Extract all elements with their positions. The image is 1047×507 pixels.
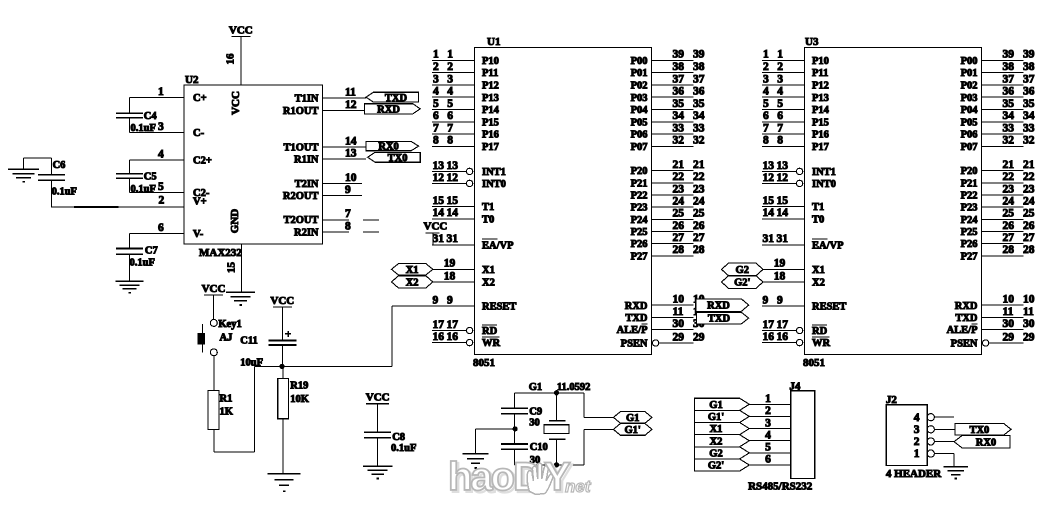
svg-text:28: 28: [1023, 244, 1035, 256]
wire R19 to ground: [282, 419, 284, 474]
svg-text:3: 3: [158, 121, 164, 133]
U1 pin 13 INT1: [432, 160, 506, 178]
VCC symbol at Key1: [202, 283, 226, 319]
net flag G2' (hex) left of U3: [722, 276, 764, 289]
svg-text:2: 2: [447, 61, 453, 73]
svg-text:AJ: AJ: [220, 333, 233, 344]
svg-text:34: 34: [673, 110, 685, 122]
svg-text:4: 4: [765, 429, 771, 441]
U1 pin 9 RESET: [432, 294, 516, 312]
svg-text:T1IN: T1IN: [295, 93, 319, 104]
capacitor C10 30: [501, 429, 548, 466]
IC U2 MAX232 body: [184, 74, 323, 259]
svg-text:8: 8: [433, 135, 439, 147]
svg-text:TXD: TXD: [708, 314, 731, 325]
svg-text:VCC: VCC: [230, 91, 242, 115]
U1 pin 23 P22: [631, 183, 705, 201]
svg-text:G1: G1: [529, 382, 542, 393]
svg-text:7: 7: [763, 123, 769, 135]
U3 pin 36 P03: [961, 86, 1035, 104]
svg-text:11: 11: [1023, 306, 1034, 318]
svg-text:P07: P07: [631, 142, 648, 153]
svg-text:17: 17: [433, 319, 445, 331]
svg-text:G1': G1': [625, 425, 641, 436]
svg-text:8: 8: [763, 135, 769, 147]
J2 pin 4: [914, 412, 935, 424]
svg-text:8: 8: [345, 221, 351, 233]
svg-text:P04: P04: [961, 105, 979, 116]
svg-text:P17: P17: [812, 142, 829, 153]
svg-text:VCC: VCC: [202, 283, 226, 295]
junction C9/C10/ground: [476, 426, 518, 454]
svg-text:37: 37: [693, 73, 705, 85]
svg-text:8: 8: [447, 135, 453, 147]
U1 pin 28 P27: [631, 244, 705, 262]
svg-text:22: 22: [693, 171, 705, 183]
svg-text:U2: U2: [185, 74, 199, 86]
svg-text:9: 9: [447, 294, 453, 306]
svg-text:4: 4: [763, 86, 769, 98]
svg-text:27: 27: [693, 232, 705, 244]
net flag TXD right of U1 pin 11: [697, 312, 749, 324]
U3 pin 11 TXD: [955, 306, 1034, 324]
RESET net wire and junction: [254, 306, 474, 369]
wire C6 to ground: [24, 158, 52, 169]
svg-text:17: 17: [447, 319, 459, 331]
capacitor C8 0.1uF: [364, 432, 416, 466]
svg-text:X2: X2: [812, 278, 825, 289]
connector J2 4 HEADER body: [886, 394, 942, 480]
svg-text:P02: P02: [631, 81, 648, 92]
U3 pin 16 WR: [762, 331, 831, 349]
svg-text:P15: P15: [812, 117, 829, 128]
svg-text:C5: C5: [144, 171, 157, 182]
svg-text:P14: P14: [812, 105, 830, 116]
U1 pin 10 RXD: [625, 294, 705, 312]
svg-text:35: 35: [1023, 98, 1035, 110]
svg-text:J4: J4: [789, 381, 801, 393]
svg-text:P22: P22: [961, 191, 978, 202]
wire to G1' flag: [584, 429, 613, 465]
J2 pin 2: [914, 436, 935, 448]
svg-text:P12: P12: [812, 81, 829, 92]
svg-text:P03: P03: [961, 93, 978, 104]
svg-text:R1OUT: R1OUT: [283, 106, 319, 117]
svg-text:PSEN: PSEN: [951, 339, 978, 350]
svg-text:11: 11: [673, 306, 684, 318]
U2 pin 9 R2OUT wire: [283, 184, 362, 202]
svg-text:25: 25: [693, 208, 705, 220]
svg-text:P03: P03: [631, 93, 648, 104]
svg-text:0.1uF: 0.1uF: [130, 258, 155, 269]
svg-text:38: 38: [1003, 61, 1015, 73]
U2 pin 6 V- wire: [130, 222, 204, 240]
svg-text:34: 34: [1003, 110, 1015, 122]
svg-text:36: 36: [693, 86, 705, 98]
svg-text:RXD: RXD: [707, 301, 730, 312]
U3 pin 22 P21: [961, 171, 1035, 189]
svg-text:R1: R1: [220, 394, 233, 405]
capacitor C11 10uF (polarized): [240, 331, 296, 369]
svg-text:33: 33: [1003, 123, 1015, 135]
svg-text:T1: T1: [812, 202, 824, 213]
svg-text:5: 5: [447, 98, 453, 110]
svg-text:6: 6: [765, 454, 771, 466]
svg-text:32: 32: [1003, 135, 1015, 147]
U2 pin 8 R2IN wire: [294, 221, 379, 239]
svg-text:21: 21: [693, 159, 705, 171]
svg-text:C7: C7: [145, 246, 158, 257]
U1 pin 3 P12: [432, 73, 499, 91]
svg-text:EA/VP: EA/VP: [482, 240, 514, 251]
VCC symbol at C11: [270, 295, 294, 341]
U2 pin 14 T1OUT wire: [283, 135, 366, 153]
U1 pin 37 P02: [631, 73, 705, 91]
svg-text:11: 11: [1003, 306, 1014, 318]
svg-text:15: 15: [777, 195, 789, 207]
svg-text:0.1uF: 0.1uF: [52, 187, 77, 198]
svg-text:3: 3: [763, 73, 769, 85]
svg-text:P25: P25: [631, 227, 648, 238]
svg-text:37: 37: [673, 73, 685, 85]
U1 pin 30 ALE/P: [617, 318, 705, 336]
svg-text:7: 7: [777, 123, 783, 135]
svg-text:X2: X2: [406, 278, 419, 289]
net flag TX0 at J2: [955, 424, 1011, 436]
J4 net flag G2' / pin 6: [695, 454, 791, 472]
svg-text:RXD: RXD: [955, 301, 978, 312]
J2 pin 4 stub wire: [934, 416, 954, 418]
ground at R19: [267, 474, 300, 491]
U3 pin 32 P07: [961, 135, 1035, 153]
svg-text:1: 1: [158, 86, 164, 98]
U3 pin 19 X1: [763, 258, 825, 276]
svg-text:C4: C4: [144, 111, 158, 122]
svg-text:9: 9: [345, 184, 351, 196]
J4 net flag G1 / pin 1: [695, 393, 791, 411]
U3 pin 26 P25: [961, 220, 1035, 238]
svg-text:INT0: INT0: [482, 179, 506, 190]
svg-text:P16: P16: [812, 130, 829, 141]
svg-text:23: 23: [673, 183, 685, 195]
svg-text:P24: P24: [631, 215, 649, 226]
VCC symbol at U1 EA/VP: [424, 221, 448, 245]
svg-text:19: 19: [774, 258, 786, 270]
svg-text:P20: P20: [961, 166, 978, 177]
svg-text:17: 17: [763, 319, 775, 331]
U2 pin 13 R1IN wire: [294, 148, 366, 166]
U3 pin 35 P04: [961, 98, 1035, 116]
svg-text:WR: WR: [812, 338, 831, 349]
svg-text:22: 22: [1003, 171, 1015, 183]
U3 pin 30 ALE/P: [947, 318, 1035, 336]
svg-text:G1': G1': [708, 412, 724, 423]
U1 pin 32 P07: [631, 135, 705, 153]
svg-text:P27: P27: [961, 251, 978, 262]
svg-text:18: 18: [774, 270, 786, 282]
svg-text:INT0: INT0: [812, 179, 836, 190]
wire net V+ from C6 to U2 pin 2: [51, 206, 184, 208]
U1 pin 19 X1: [433, 258, 495, 276]
U3 pin 7 P16: [762, 123, 829, 141]
svg-text:RX0: RX0: [976, 437, 996, 448]
svg-text:12: 12: [433, 172, 445, 184]
svg-text:4: 4: [433, 86, 439, 98]
U3 pin 39 P00: [961, 49, 1035, 67]
svg-text:2: 2: [914, 436, 920, 448]
svg-text:9: 9: [433, 294, 439, 306]
U3 pin 17 RD: [762, 319, 828, 337]
U1 pin 1 P10: [432, 49, 499, 67]
U3 pin 18 X2: [763, 270, 825, 288]
svg-text:7: 7: [433, 123, 439, 135]
U1 pin 24 P23: [631, 196, 705, 214]
U3 pin 27 P26: [961, 232, 1035, 250]
crystal Y1 11.0592: [544, 393, 569, 465]
svg-text:0.1uF: 0.1uF: [131, 123, 156, 134]
net flag G1' (hex): [613, 424, 652, 436]
U3 pin 5 P14: [762, 98, 830, 116]
svg-text:18: 18: [444, 270, 456, 282]
svg-text:1: 1: [777, 49, 783, 61]
U3 pin 15 T1: [762, 195, 824, 213]
U3 pin 33 P06: [961, 123, 1035, 141]
resistor R1 1K: [208, 391, 234, 430]
svg-text:RXD: RXD: [377, 104, 400, 115]
svg-text:5: 5: [763, 98, 769, 110]
svg-text:13: 13: [345, 148, 357, 160]
svg-text:2: 2: [433, 61, 439, 73]
capacitor C9 30: [501, 393, 542, 429]
svg-text:33: 33: [673, 123, 685, 135]
svg-text:ALE/P: ALE/P: [947, 325, 979, 336]
svg-text:P15: P15: [482, 117, 499, 128]
svg-text:23: 23: [1003, 183, 1015, 195]
svg-text:P23: P23: [631, 203, 648, 214]
svg-text:1K: 1K: [220, 407, 234, 418]
svg-text:4: 4: [914, 412, 920, 424]
svg-text:2: 2: [159, 194, 165, 206]
svg-text:P10: P10: [482, 56, 499, 67]
ground pin 15 of U2: [226, 244, 256, 305]
svg-text:14: 14: [433, 207, 445, 219]
U3 pin 28 P27: [961, 244, 1035, 262]
svg-text:8051: 8051: [803, 357, 825, 369]
svg-text:R2IN: R2IN: [294, 228, 319, 239]
svg-text:P05: P05: [961, 117, 978, 128]
svg-text:13: 13: [447, 160, 459, 172]
svg-text:38: 38: [1023, 61, 1035, 73]
svg-text:VCC: VCC: [229, 25, 253, 37]
ground at crystal: [463, 454, 489, 468]
pushbutton Key1 AJ: [198, 319, 242, 356]
U2 pin 2 V+ wire: [159, 194, 207, 207]
svg-text:5: 5: [433, 98, 439, 110]
svg-text:INT1: INT1: [482, 167, 506, 178]
svg-text:24: 24: [673, 196, 685, 208]
svg-text:P06: P06: [631, 130, 648, 141]
U3 pin 37 P02: [961, 73, 1035, 91]
U1 pin 22 P21: [631, 171, 705, 189]
svg-text:5: 5: [765, 442, 771, 454]
svg-text:P26: P26: [631, 239, 648, 250]
U1 pin 17 RD: [432, 319, 498, 337]
svg-text:VCC: VCC: [270, 295, 294, 307]
svg-text:33: 33: [693, 123, 705, 135]
svg-text:9: 9: [763, 294, 769, 306]
U3 pin 24 P23: [961, 196, 1035, 214]
svg-text:8: 8: [777, 135, 783, 147]
wire R1 bottom loop to RESET node: [214, 366, 255, 452]
svg-text:16: 16: [777, 331, 789, 343]
svg-text:24: 24: [1003, 196, 1015, 208]
svg-text:RESET: RESET: [812, 302, 846, 313]
wire to G1 flag: [584, 393, 613, 418]
svg-text:0.1uF: 0.1uF: [131, 184, 156, 195]
svg-text:14: 14: [447, 207, 459, 219]
U2 pin 7 T2OUT wire: [283, 208, 379, 226]
svg-text:VCC: VCC: [366, 392, 390, 404]
capacitor C4 0.1uF: [116, 98, 157, 135]
J4 net flag X1 / pin 3: [695, 417, 791, 435]
U3 pin 31 EA/VP: [762, 233, 844, 251]
J4 net flag X2 / pin 4: [695, 429, 791, 447]
U3 pin 4 P13: [762, 86, 829, 104]
U1 pin 4 P13: [432, 86, 499, 104]
svg-text:X1: X1: [812, 265, 825, 276]
svg-text:G2: G2: [736, 265, 749, 276]
U3 pin 23 P22: [961, 183, 1035, 201]
svg-text:RXD: RXD: [625, 301, 648, 312]
U3 pin 14 T0: [762, 207, 824, 225]
IC U3 8051 body: [803, 36, 982, 369]
svg-text:13: 13: [433, 160, 445, 172]
svg-text:T0: T0: [812, 214, 824, 225]
U3 pin 25 P24: [961, 208, 1035, 226]
net flag G2 (hex) left of U3: [722, 263, 764, 276]
J2 pin 1 wire to ground: [934, 454, 954, 467]
svg-text:T2IN: T2IN: [295, 179, 319, 190]
svg-text:13: 13: [763, 160, 775, 172]
svg-text:G2': G2': [734, 278, 750, 289]
svg-text:RS485/RS232: RS485/RS232: [748, 480, 813, 492]
svg-text:19: 19: [444, 258, 456, 270]
svg-text:P12: P12: [482, 81, 499, 92]
svg-text:30: 30: [1023, 318, 1035, 330]
U1 pin 33 P06: [631, 123, 705, 141]
svg-text:P06: P06: [961, 130, 978, 141]
J2 pin 2 wire to RX0: [934, 440, 954, 442]
svg-text:5: 5: [158, 181, 164, 193]
svg-text:26: 26: [1003, 220, 1015, 232]
svg-text:J2: J2: [886, 394, 898, 406]
svg-text:TXD: TXD: [625, 313, 648, 324]
svg-text:P01: P01: [961, 68, 978, 79]
svg-text:P13: P13: [812, 93, 829, 104]
capacitor C7 0.1uF: [116, 234, 158, 282]
svg-text:23: 23: [693, 183, 705, 195]
net flag RX0 at U2 T1OUT: [366, 142, 419, 153]
capacitor C5 0.1uF: [116, 160, 157, 195]
svg-text:35: 35: [673, 98, 685, 110]
U1 pin 39 P00: [631, 49, 705, 67]
net flag X2 (hex) left of U1: [392, 276, 433, 289]
U1 pin 31 EA/VP: [432, 233, 514, 251]
svg-text:TXD: TXD: [955, 313, 978, 324]
svg-text:37: 37: [1023, 73, 1035, 85]
svg-text:4: 4: [447, 86, 453, 98]
svg-text:U3: U3: [805, 36, 819, 48]
svg-text:17: 17: [777, 319, 789, 331]
svg-text:P13: P13: [482, 93, 499, 104]
svg-text:TXD: TXD: [385, 93, 408, 104]
svg-text:P21: P21: [631, 178, 648, 189]
svg-text:10K: 10K: [290, 394, 310, 405]
U2 pin 12 R1OUT wire: [283, 99, 366, 117]
svg-text:30: 30: [1003, 318, 1015, 330]
svg-text:39: 39: [1003, 49, 1015, 61]
svg-text:MAX232: MAX232: [199, 247, 242, 259]
ground at J2: [943, 467, 968, 479]
U1 pin 15 T1: [432, 195, 494, 213]
U3 pin 29 PSEN: [951, 331, 1035, 349]
svg-text:9: 9: [777, 294, 783, 306]
svg-text:RD: RD: [812, 326, 828, 337]
svg-text:36: 36: [673, 86, 685, 98]
U1 pin 21 P20: [631, 159, 705, 177]
U3 pin 10 RXD: [955, 294, 1035, 312]
svg-text:23: 23: [1023, 183, 1035, 195]
svg-text:16: 16: [447, 331, 459, 343]
svg-text:6: 6: [433, 110, 439, 122]
U3 pin 8 P17: [762, 135, 829, 153]
svg-text:3: 3: [447, 73, 453, 85]
svg-text:P20: P20: [631, 166, 648, 177]
svg-text:P01: P01: [631, 68, 648, 79]
svg-text:25: 25: [1003, 208, 1015, 220]
net flag X1 (hex) left of U1: [392, 264, 433, 276]
svg-text:16: 16: [763, 331, 775, 343]
svg-text:X2: X2: [482, 278, 495, 289]
svg-text:6: 6: [763, 110, 769, 122]
wire Key1 to R1: [213, 356, 215, 391]
svg-text:6: 6: [158, 222, 164, 234]
watermark logo haoDIY.net: [448, 455, 592, 501]
net flag TXD at U2 T1IN: [366, 92, 419, 104]
svg-text:36: 36: [1023, 86, 1035, 98]
svg-text:Key1: Key1: [218, 319, 241, 330]
svg-text:G2: G2: [709, 448, 722, 459]
net flag RXD at U2 R1OUT: [364, 104, 420, 116]
svg-text:3: 3: [914, 424, 920, 436]
svg-text:36: 36: [1003, 86, 1015, 98]
svg-text:2: 2: [777, 61, 783, 73]
svg-text:P11: P11: [812, 68, 828, 79]
svg-text:R19: R19: [290, 381, 308, 392]
U1 pin 8 P17: [432, 135, 499, 153]
svg-text:29: 29: [1023, 331, 1035, 343]
svg-text:5: 5: [777, 98, 783, 110]
svg-text:X1: X1: [406, 265, 419, 276]
svg-text:32: 32: [693, 135, 705, 147]
svg-text:RX0: RX0: [378, 142, 398, 153]
ground at C6: [8, 169, 39, 182]
svg-text:28: 28: [673, 244, 685, 256]
U1 pin 26 P25: [631, 220, 705, 238]
svg-text:22: 22: [1023, 171, 1035, 183]
svg-text:10: 10: [1023, 294, 1035, 306]
svg-text:31: 31: [763, 233, 775, 245]
